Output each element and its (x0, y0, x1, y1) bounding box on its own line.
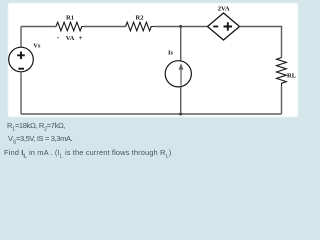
node junction bottom (179, 113, 182, 116)
svg-text:VA: VA (66, 35, 75, 42)
question text line 1 (7, 122, 65, 133)
svg-text:Is: Is (168, 49, 174, 56)
wire R2 to diamond (155, 26, 208, 28)
wire RL down to bottom-right corner (281, 86, 283, 114)
svg-text:+: + (79, 34, 83, 42)
wire left branch top (20, 27, 22, 48)
wire top-left horizontal (21, 26, 56, 28)
question text line 2 (8, 135, 72, 146)
plus inside Vs (17, 52, 25, 60)
dependent source 2VA diamond (208, 13, 240, 40)
resistor RL vertical (277, 58, 287, 87)
wire R1 to R2 (84, 26, 126, 28)
svg-text:R1: R1 (66, 15, 74, 22)
question text line 3 (4, 149, 171, 160)
voltage source Vs (9, 47, 34, 72)
Is arrow (180, 69, 182, 86)
resistor R1 (56, 22, 84, 31)
wire diamond to top-right corner down to RL (240, 27, 282, 58)
minus inside Vs (18, 68, 24, 70)
wire Is branch bottom (180, 87, 182, 114)
wire Is branch top (180, 27, 182, 62)
wire left branch bottom (20, 72, 22, 114)
svg-text:RL: RL (287, 73, 297, 80)
white circuit panel (8, 3, 298, 117)
svg-text:R2: R2 (136, 15, 144, 22)
svg-text:Vs: Vs (33, 42, 41, 49)
bottom wire (21, 113, 282, 115)
resistor R2 (126, 22, 155, 31)
current source Is (165, 61, 191, 87)
node junction top (179, 25, 182, 28)
minus inside diamond (213, 26, 218, 28)
svg-text:2VA: 2VA (218, 5, 230, 12)
plus inside diamond (224, 22, 233, 30)
svg-text:-: - (57, 34, 60, 42)
